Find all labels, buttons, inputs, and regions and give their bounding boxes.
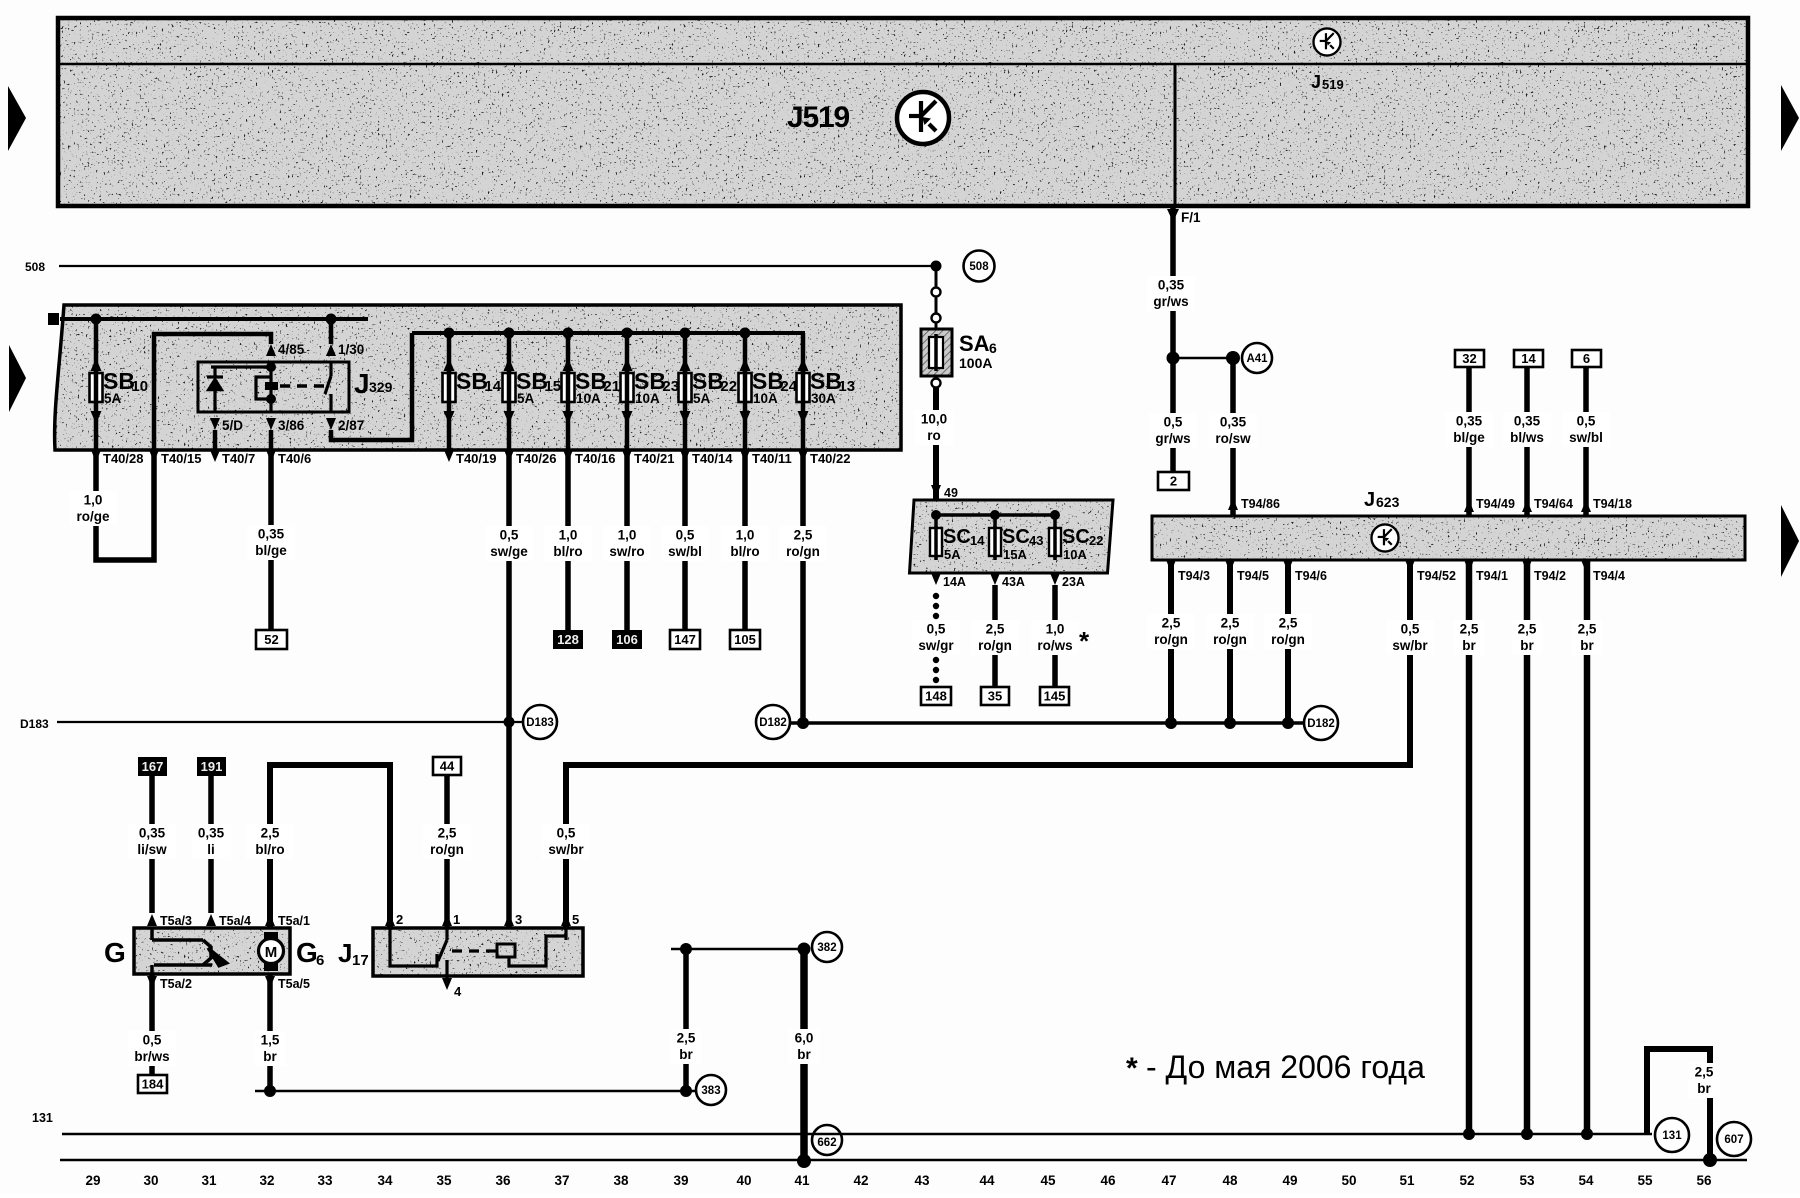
svg-text:49: 49	[1282, 1173, 1297, 1188]
svg-text:52: 52	[1459, 1173, 1474, 1188]
label 6,0 br	[788, 1029, 819, 1064]
svg-text:13: 13	[838, 378, 855, 395]
junction SC22	[1050, 510, 1060, 520]
terminal T40/26 arrow	[504, 450, 514, 462]
svg-text:bl/ro: bl/ro	[255, 842, 284, 857]
wire 1,0 ro/ws SC22	[1052, 585, 1058, 687]
svg-text:*: *	[1126, 1052, 1138, 1085]
svg-text:623: 623	[1376, 494, 1400, 510]
wire SB21 to T40/16	[566, 404, 571, 450]
terminal box 128	[553, 630, 583, 649]
wire to A41	[1173, 357, 1233, 359]
svg-text:100A: 100A	[959, 355, 992, 371]
terminal box 32	[1455, 350, 1484, 367]
label 10,0 ro	[914, 410, 953, 445]
wire bus2 to SB22	[683, 333, 688, 373]
svg-text:32: 32	[259, 1173, 274, 1188]
junction bus2 SB22	[680, 328, 691, 339]
svg-text:131: 131	[1662, 1130, 1682, 1142]
svg-text:D183: D183	[20, 717, 49, 731]
label 0,35 bl/ws	[1503, 412, 1551, 447]
label 1,0 sw/ro	[603, 526, 651, 561]
terminal T5a/1 arrow	[265, 914, 275, 926]
wire seg	[935, 297, 938, 313]
svg-text:T94/49: T94/49	[1476, 497, 1515, 511]
junction on 508 wire	[931, 261, 942, 272]
svg-text:2,5: 2,5	[1279, 616, 1298, 631]
junction bus2 SB14	[444, 328, 455, 339]
wire 2,5 br	[1466, 560, 1473, 1134]
svg-text:44: 44	[440, 759, 455, 774]
wire ground node 382	[671, 948, 806, 950]
wire SB22 to T40/14	[683, 404, 688, 450]
terminal 1/30 arrow	[326, 344, 336, 356]
svg-text:106: 106	[616, 632, 638, 647]
K symbol in J623	[1371, 524, 1398, 551]
relay J329 internals	[207, 362, 331, 412]
svg-text:105: 105	[734, 632, 756, 647]
svg-text:15A: 15A	[1003, 547, 1027, 562]
svg-text:ro/gn: ro/gn	[1213, 632, 1247, 647]
fuse SC43 15A	[989, 515, 1043, 562]
wire seg2	[935, 323, 938, 329]
J17 pin 1 arrow	[442, 914, 452, 926]
fuse SC14 5A	[930, 515, 985, 562]
wire SB10 to T40/28	[94, 404, 99, 450]
terminal T40/7 arrow	[210, 450, 220, 462]
terminal T94/86 arrow	[1228, 498, 1238, 510]
wire 0,5 sw/br T94/52 to J17	[566, 560, 1410, 928]
svg-text:0,35: 0,35	[1514, 414, 1541, 429]
connector circle 3	[932, 379, 941, 388]
svg-text:SB: SB	[456, 368, 488, 394]
label 2,5 bl/ro	[246, 824, 294, 859]
wire T40/26 0,5 sw/ge to J17 pin3	[506, 450, 512, 928]
fuse SB15 5A	[503, 358, 562, 424]
svg-text:T94/86: T94/86	[1241, 497, 1280, 511]
node circle 131	[1655, 1118, 1689, 1152]
svg-text:6: 6	[316, 952, 324, 969]
svg-text:ro/ws: ro/ws	[1037, 638, 1072, 653]
svg-text:gr/ws: gr/ws	[1153, 294, 1188, 309]
svg-text:43: 43	[914, 1173, 930, 1188]
svg-text:T40/6: T40/6	[278, 451, 311, 466]
wire SB13 to T40/22	[801, 404, 806, 450]
svg-text:A41: A41	[1246, 353, 1268, 365]
svg-text:gr/ws: gr/ws	[1155, 431, 1190, 446]
svg-text:2,5: 2,5	[438, 826, 457, 841]
J17 pin 5 arrow	[561, 914, 571, 926]
svg-text:2,5: 2,5	[1578, 622, 1597, 637]
terminal box 167	[138, 757, 167, 776]
J17 internals	[390, 928, 566, 976]
left edge arrow fuse panel	[9, 345, 26, 412]
bus wire top	[60, 317, 368, 321]
label 0,5 gr/ws	[1149, 413, 1197, 448]
label 2,5 br	[670, 1029, 701, 1064]
svg-text:T40/11: T40/11	[752, 451, 792, 466]
svg-text:6,0: 6,0	[795, 1031, 814, 1046]
fuse SB14	[443, 358, 502, 424]
svg-text:147: 147	[674, 632, 696, 647]
svg-text:33: 33	[317, 1173, 333, 1188]
terminal T5a/5 arrow	[265, 976, 275, 988]
terminal T94/64 arrow	[1522, 500, 1532, 512]
terminal 4/85 arrow	[266, 344, 276, 356]
svg-text:45: 45	[1040, 1173, 1056, 1188]
svg-text:2,5: 2,5	[677, 1031, 696, 1046]
svg-text:44: 44	[979, 1173, 995, 1188]
wire 2/87 to bus2	[331, 333, 412, 440]
svg-text:50: 50	[1341, 1173, 1356, 1188]
junction bus2 SB24	[740, 328, 751, 339]
terminal 5/D arrow	[210, 418, 220, 430]
node circle 508	[964, 251, 995, 282]
svg-text:br: br	[1520, 638, 1534, 653]
terminal box 2	[1158, 472, 1189, 490]
svg-text:56: 56	[1696, 1173, 1712, 1188]
footnote until May 2006	[1126, 1049, 1425, 1085]
svg-text:br: br	[263, 1049, 277, 1064]
svg-text:24: 24	[780, 378, 797, 395]
svg-text:0,5: 0,5	[676, 528, 695, 543]
junction bus2 SB15	[504, 328, 515, 339]
svg-text:F/1: F/1	[1181, 210, 1201, 225]
terminal T94/5 arrow	[1225, 560, 1235, 572]
wire 4/85 to T40/15	[154, 334, 271, 450]
svg-text:li: li	[207, 842, 215, 857]
fuse SB10 5A	[90, 358, 149, 424]
svg-text:17: 17	[352, 952, 369, 969]
svg-text:2/87: 2/87	[338, 418, 364, 433]
node circle 607	[1717, 1122, 1751, 1156]
svg-text:22: 22	[720, 378, 737, 395]
label J519 small	[1311, 72, 1344, 92]
svg-text:14: 14	[1521, 351, 1536, 366]
wire bus2 to SB13	[801, 333, 806, 373]
relay J329 box	[198, 362, 349, 412]
svg-text:ro/gn: ro/gn	[978, 638, 1012, 653]
terminal T40/21 arrow	[622, 450, 632, 462]
node circle D182 right	[1304, 706, 1338, 740]
label 2,5 br	[1453, 620, 1484, 655]
terminal T5a/2 arrow	[147, 976, 157, 988]
terminal T94/18 arrow	[1581, 500, 1591, 512]
junction A41 right	[1226, 351, 1240, 365]
label 2,5 br	[1511, 620, 1542, 655]
svg-text:519: 519	[1322, 77, 1344, 92]
svg-text:184: 184	[142, 1077, 164, 1092]
terminal T40/6 arrow	[266, 450, 276, 462]
svg-text:ro/sw: ro/sw	[1215, 431, 1251, 446]
svg-text:10A: 10A	[753, 391, 778, 406]
svg-text:li/sw: li/sw	[137, 842, 167, 857]
svg-text:53: 53	[1519, 1173, 1535, 1188]
svg-text:T40/22: T40/22	[810, 451, 850, 466]
control unit J623 box	[1152, 516, 1745, 560]
wire 0,35 li/sw	[149, 776, 155, 913]
wire SB14 to T40/19	[447, 404, 452, 450]
svg-text:T94/18: T94/18	[1593, 497, 1632, 511]
svg-text:0,5: 0,5	[1577, 414, 1596, 429]
svg-text:T40/15: T40/15	[161, 451, 201, 466]
wire 0,5 sw/bl	[1583, 367, 1589, 516]
terminal box 148	[921, 687, 951, 705]
terminal box 147	[670, 630, 700, 649]
label 1,0 ro/ws	[1031, 620, 1079, 655]
svg-text:21: 21	[603, 378, 620, 395]
svg-text:34: 34	[377, 1173, 393, 1188]
wire bus2 to SB23	[625, 333, 630, 373]
wire 131	[62, 1133, 1652, 1135]
terminal T40/15 arrow	[149, 450, 159, 462]
K symbol top strip	[1313, 28, 1340, 55]
node circle D182 left	[756, 705, 790, 739]
wire SB15 to T40/26	[507, 404, 512, 450]
fuse SB21 10A	[562, 358, 621, 424]
label 2,5 ro/gn SC43	[971, 620, 1019, 655]
svg-text:0,5: 0,5	[1401, 622, 1420, 637]
svg-text:36: 36	[495, 1173, 511, 1188]
svg-text:- До мая 2006 года: - До мая 2006 года	[1146, 1049, 1425, 1085]
terminal 2/87 arrow	[326, 418, 336, 430]
svg-text:10: 10	[131, 378, 148, 395]
svg-text:2,5: 2,5	[794, 528, 813, 543]
svg-text:41: 41	[794, 1173, 810, 1188]
svg-text:T5a/5: T5a/5	[278, 977, 310, 991]
wire 1/30 to bus	[329, 319, 334, 344]
svg-text:0,35: 0,35	[1456, 414, 1483, 429]
wire SB24 to T40/11	[743, 404, 748, 450]
svg-text:5/D: 5/D	[222, 418, 243, 433]
svg-text:0,35: 0,35	[258, 527, 285, 542]
svg-text:43A: 43A	[1002, 575, 1025, 589]
label 2,5 br step	[1688, 1063, 1719, 1098]
label 2,5 ro/gn left	[423, 824, 471, 859]
svg-text:sw/ge: sw/ge	[490, 544, 528, 559]
svg-text:0,35: 0,35	[1220, 415, 1247, 430]
node circle 383	[696, 1075, 726, 1105]
wire D182	[790, 721, 1303, 725]
label 1,5 br	[254, 1031, 285, 1066]
svg-text:T5a/2: T5a/2	[160, 977, 192, 991]
wire ground node 383	[255, 1090, 696, 1092]
terminal T94/4 arrow	[1581, 560, 1591, 572]
wire bus2 to SB15	[507, 333, 512, 373]
connector circle 2	[932, 314, 941, 323]
svg-text:4: 4	[454, 984, 462, 999]
wire bus2 to SB24	[743, 333, 748, 373]
connector circle 1	[932, 288, 941, 297]
junction bus2 SB21	[563, 328, 574, 339]
svg-text:191: 191	[201, 759, 223, 774]
SC fuse box	[910, 500, 1114, 573]
SC bus	[936, 513, 1056, 517]
svg-text:T94/5: T94/5	[1237, 569, 1269, 583]
svg-text:2,5: 2,5	[261, 826, 280, 841]
svg-text:T40/26: T40/26	[516, 451, 556, 466]
svg-text:10A: 10A	[635, 391, 660, 406]
wire 2,5 ro/gn to J17 pin1	[444, 775, 450, 928]
svg-text:30A: 30A	[811, 391, 836, 406]
wire 2,5 ro/gn to D182	[1168, 560, 1174, 723]
terminal box 105	[730, 630, 760, 649]
terminal T94/6 arrow	[1283, 560, 1293, 572]
junction A41	[1167, 352, 1180, 365]
wire 5/D to T40/7	[213, 430, 218, 450]
terminal box 14	[1514, 350, 1543, 367]
svg-text:51: 51	[1399, 1173, 1415, 1188]
left edge arrow top	[8, 86, 26, 151]
svg-text:bl/ge: bl/ge	[1453, 430, 1485, 445]
svg-text:0,5: 0,5	[927, 622, 946, 637]
svg-text:23: 23	[662, 378, 679, 395]
label 0,5 sw/bl	[1562, 412, 1610, 447]
dotted wire 0,5 sw/gr	[933, 593, 939, 599]
svg-text:0,35: 0,35	[1158, 278, 1185, 293]
svg-text:2,5: 2,5	[1460, 622, 1479, 637]
svg-text:SC: SC	[943, 526, 971, 548]
svg-text:T40/28: T40/28	[103, 451, 143, 466]
svg-text:SC: SC	[1002, 526, 1030, 548]
wire 0,35 li	[208, 776, 214, 913]
svg-text:D183: D183	[526, 717, 554, 729]
svg-text:2,5: 2,5	[1518, 622, 1537, 637]
svg-text:1,0: 1,0	[736, 528, 755, 543]
svg-text:T5a/1: T5a/1	[278, 914, 310, 928]
wire 2,5 br	[1524, 560, 1531, 1134]
svg-text:sw/bl: sw/bl	[668, 544, 702, 559]
node circle D183	[523, 705, 557, 739]
svg-text:G: G	[104, 937, 126, 968]
G6 pump motor	[259, 932, 284, 971]
svg-text:662: 662	[817, 1137, 836, 1149]
svg-text:2,5: 2,5	[1162, 616, 1181, 631]
svg-text:br: br	[1462, 638, 1476, 653]
svg-text:5A: 5A	[104, 391, 122, 406]
svg-text:ro: ro	[927, 428, 941, 443]
svg-text:3: 3	[515, 912, 522, 927]
svg-text:167: 167	[142, 759, 164, 774]
label 0,5 sw/br left	[542, 824, 590, 859]
junction D183/sw-ge	[504, 717, 515, 728]
svg-text:1,0: 1,0	[559, 528, 578, 543]
svg-text:1/30: 1/30	[338, 342, 364, 357]
svg-text:*: *	[1079, 626, 1090, 656]
svg-text:G: G	[296, 937, 318, 968]
terminal F/1 arrow	[1167, 209, 1179, 222]
junction bus2 SB23	[622, 328, 633, 339]
svg-text:ro/gn: ro/gn	[1154, 632, 1188, 647]
svg-text:30: 30	[143, 1173, 158, 1188]
svg-text:D182: D182	[1307, 718, 1335, 730]
node circle A41	[1242, 343, 1272, 373]
wire 2,5 br step	[1647, 1049, 1710, 1160]
svg-text:6: 6	[989, 340, 997, 356]
wire 0,5 gr/ws	[1170, 358, 1176, 472]
terminal 23A arrow	[1050, 573, 1060, 585]
terminal T5a/3 arrow	[147, 914, 157, 926]
svg-text:0,35: 0,35	[198, 826, 225, 841]
svg-text:14: 14	[484, 378, 501, 395]
terminal T5a/4 arrow	[206, 914, 216, 926]
terminal box 184	[138, 1075, 167, 1093]
node circle 662	[812, 1125, 842, 1155]
junction 2,5 br / rail	[1703, 1153, 1717, 1167]
fuel gauge sender G / pump G6 box	[134, 928, 290, 974]
terminal 3/86 arrow	[266, 418, 276, 430]
wire 508 to SA6	[935, 266, 938, 287]
wire 0,35 ro/sw	[1230, 358, 1236, 516]
svg-text:T5a/3: T5a/3	[160, 914, 192, 928]
node circle 382	[812, 932, 842, 962]
terminal T94/3 arrow	[1166, 560, 1176, 572]
svg-text:5: 5	[572, 912, 579, 927]
terminal 14A arrow	[931, 573, 941, 585]
svg-text:382: 382	[817, 942, 836, 954]
svg-text:br/ws: br/ws	[134, 1049, 169, 1064]
svg-text:J: J	[354, 368, 370, 399]
svg-text:46: 46	[1100, 1173, 1116, 1188]
svg-text:2: 2	[396, 912, 403, 927]
terminal T40/22 arrow	[798, 450, 808, 462]
svg-text:31: 31	[201, 1173, 217, 1188]
svg-text:J: J	[1311, 72, 1321, 92]
svg-text:br: br	[1580, 638, 1594, 653]
svg-text:T94/52: T94/52	[1417, 569, 1456, 583]
wire bus2 to SB14	[447, 333, 452, 373]
label 1,0 bl/ro	[544, 526, 592, 561]
svg-text:5A: 5A	[517, 391, 535, 406]
svg-text:0,5: 0,5	[500, 528, 519, 543]
svg-text:508: 508	[969, 261, 989, 273]
svg-text:br: br	[679, 1047, 693, 1062]
label 0,35 ro/sw	[1209, 413, 1257, 448]
svg-text:35: 35	[988, 689, 1002, 704]
svg-text:48: 48	[1222, 1173, 1238, 1188]
svg-text:0,5: 0,5	[143, 1033, 162, 1048]
fuse SA6 100A	[921, 329, 952, 376]
fuse SB22 5A	[679, 358, 738, 424]
svg-text:ro/gn: ro/gn	[786, 544, 820, 559]
junction SC14	[931, 510, 941, 520]
terminal T40/11 arrow	[740, 450, 750, 462]
svg-text:1,0: 1,0	[1046, 622, 1065, 637]
label 0,5 sw/bl	[661, 526, 709, 561]
wire SB10 to bus	[94, 319, 99, 373]
pin 4 stub	[445, 976, 449, 980]
svg-text:40: 40	[736, 1173, 751, 1188]
bus wire 2	[412, 331, 805, 335]
wire 2,5 bl/ro G to J17	[270, 765, 390, 928]
wire 6,0 br	[800, 949, 808, 1161]
svg-text:32: 32	[1462, 351, 1476, 366]
panel bus bar	[48, 313, 59, 325]
fuse SC22 10A	[1049, 515, 1103, 562]
wire 0,5 br/ws	[149, 974, 155, 1075]
wire 2,5 br	[1584, 560, 1591, 1134]
wire 3/86 to T40/6	[269, 430, 274, 450]
wire SB23 to T40/21	[625, 404, 630, 450]
svg-text:T40/21: T40/21	[634, 451, 674, 466]
terminal 49 arrow	[931, 485, 941, 497]
bottom rail wire	[60, 1159, 1747, 1162]
label J329	[354, 368, 393, 399]
wire 2,5 br to 383	[683, 949, 689, 1091]
junction 1/30 bus	[326, 314, 337, 325]
terminal T40/14 arrow	[680, 450, 690, 462]
svg-text:ro/gn: ro/gn	[430, 842, 464, 857]
